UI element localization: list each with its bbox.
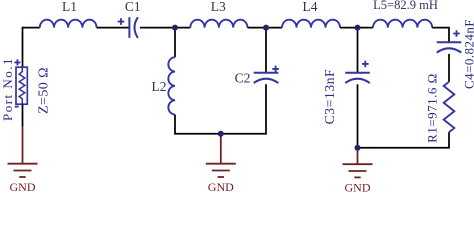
capacitor C1 <box>129 17 138 38</box>
inductor L1 <box>40 20 97 28</box>
inductor L5 <box>373 20 432 28</box>
wire bottom rail 2 to R1 <box>358 132 450 148</box>
svg-text:L2: L2 <box>152 79 167 94</box>
resistor R1 <box>444 82 455 132</box>
svg-text:Z=50 Ω: Z=50 Ω <box>37 67 52 114</box>
wire C1 to L3 <box>140 27 190 29</box>
ground GND2 <box>206 134 236 177</box>
svg-text:C1: C1 <box>125 0 141 14</box>
plus mark C3 <box>362 61 369 68</box>
wire L2 to bottom rail and rail to C2 <box>175 84 266 133</box>
svg-text:GND: GND <box>208 180 234 192</box>
ground GND3 <box>343 148 373 177</box>
wire L1 to C1 <box>97 27 130 29</box>
svg-text:Port No.1: Port No.1 <box>0 57 15 121</box>
wire top rail left segment <box>23 27 40 29</box>
wire C3 to bottom rail 2 <box>357 84 359 148</box>
svg-text:GND: GND <box>345 181 371 193</box>
node junction A <box>172 25 178 31</box>
ground GND1 <box>8 127 38 177</box>
svg-text:C2: C2 <box>235 70 251 85</box>
node junction B <box>263 25 269 31</box>
wire L4 to L5 <box>340 27 373 29</box>
capacitor C2 <box>254 73 279 83</box>
capacitor C3 <box>345 73 370 83</box>
wire junction C to C3 <box>357 28 359 73</box>
wire port to ground <box>22 105 24 127</box>
plus mark C1 <box>118 18 125 25</box>
minus mark port <box>15 106 19 108</box>
inductor L2 <box>168 57 175 114</box>
wire L3 to L4 <box>248 27 283 29</box>
plus mark C4 <box>453 30 460 37</box>
svg-text:L4: L4 <box>303 0 318 14</box>
inductor L3 <box>190 20 247 28</box>
wire junction B to C2 <box>265 28 267 73</box>
svg-text:GND: GND <box>10 180 36 192</box>
wire L5 to right corner down to C4 <box>432 28 449 43</box>
svg-text:L1: L1 <box>62 0 77 14</box>
plus mark port <box>14 59 20 65</box>
wire C4 to R1 <box>448 54 450 82</box>
svg-text:C3=13nF: C3=13nF <box>322 69 337 125</box>
node junction D <box>218 131 224 137</box>
plus mark C2 <box>272 66 279 73</box>
svg-text:R1=971.6 Ω: R1=971.6 Ω <box>425 73 440 143</box>
node junction C <box>355 25 361 31</box>
node junction E <box>355 145 361 151</box>
wire port vertical <box>22 27 24 67</box>
port P1 box <box>16 67 27 104</box>
svg-text:L5=82.9 mH: L5=82.9 mH <box>373 0 438 12</box>
wire junction A to L2 <box>174 28 176 58</box>
capacitor C4 <box>437 42 462 52</box>
inductor L4 <box>282 20 340 28</box>
port P1 zigzag <box>19 67 25 104</box>
svg-text:C4=0.824nF: C4=0.824nF <box>462 19 474 89</box>
svg-text:L3: L3 <box>211 0 226 14</box>
